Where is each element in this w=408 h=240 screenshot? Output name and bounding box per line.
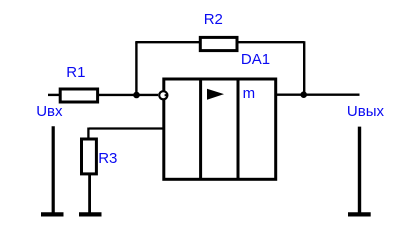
wire R3 top horizontal <box>89 127 164 129</box>
wire feedback right vertical <box>303 41 305 94</box>
svg-text:R3: R3 <box>98 150 117 167</box>
inversion circle at block input <box>159 91 167 99</box>
block divider 2 <box>237 79 240 179</box>
wire input left segment <box>48 94 60 96</box>
ground right bar <box>348 212 371 216</box>
ground left stem <box>52 126 55 214</box>
block divider 1 <box>199 79 202 179</box>
resistor R2 <box>200 37 237 50</box>
svg-text:m: m <box>243 85 256 102</box>
ground left bar <box>41 212 64 216</box>
svg-text:DA1: DA1 <box>241 51 270 68</box>
svg-text:Uвх: Uвх <box>36 103 63 120</box>
svg-text:R2: R2 <box>204 11 223 28</box>
wire top horizontal to R2 <box>135 41 201 43</box>
node output junction <box>300 91 307 98</box>
op-amp block DA1 <box>164 79 276 179</box>
wire feedback left vertical <box>135 42 137 95</box>
wire stub inside inversion circle <box>165 94 168 96</box>
wire output <box>277 93 360 95</box>
ground R3 bar <box>79 212 102 216</box>
resistor R1 <box>60 89 97 102</box>
wire R3 bottom stem <box>88 175 91 214</box>
svg-text:R1: R1 <box>66 64 85 81</box>
amplifier triangle symbol <box>207 89 224 100</box>
node input junction <box>133 92 140 99</box>
resistor R3 <box>82 139 97 174</box>
wire R2 to right vertical <box>237 41 304 43</box>
wire R1 to input node <box>98 94 159 96</box>
wire R3 top stem <box>87 128 89 140</box>
ground right stem <box>358 127 361 214</box>
svg-text:Uвых: Uвых <box>347 103 385 120</box>
